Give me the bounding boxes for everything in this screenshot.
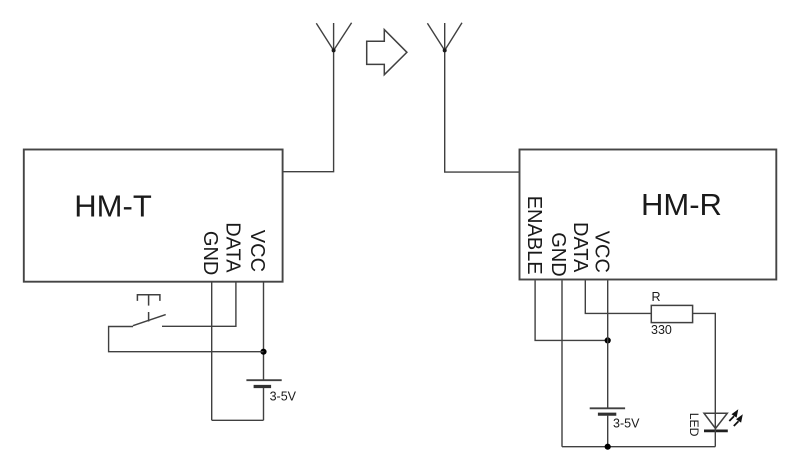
- arrow signal direction: [367, 30, 407, 75]
- battery BT1: [246, 380, 281, 386]
- module U1 HM-T: [24, 150, 283, 282]
- wire resistor R1 to LED: [693, 313, 716, 413]
- svg-text:GND: GND: [547, 232, 569, 276]
- wire bottom rail right circuit: [562, 446, 715, 448]
- node battery-rail junction: [605, 444, 611, 450]
- svg-text:LED: LED: [687, 413, 701, 437]
- battery BT2: [590, 408, 625, 414]
- svg-text:DATA: DATA: [221, 222, 243, 273]
- switch S1 pushbutton: [133, 295, 166, 326]
- svg-text:DATA: DATA: [569, 222, 591, 273]
- wire GND U2 to bottom rail: [561, 281, 563, 447]
- svg-text:3-5V: 3-5V: [613, 417, 640, 431]
- wire bottom rail left circuit: [212, 419, 264, 421]
- wire VCC U1 to battery: [263, 282, 265, 381]
- wire GND U1 to bottom rail: [211, 282, 213, 421]
- wire switch left contact: [109, 327, 264, 352]
- wire ENABLE U2 to VCC node: [535, 281, 608, 341]
- wire battery BT1 to bottom rail: [263, 388, 265, 420]
- svg-text:3-5V: 3-5V: [270, 390, 297, 404]
- module U2 HM-R: [520, 150, 777, 280]
- antenna ANT2: [427, 23, 519, 172]
- antenna ANT1: [283, 23, 352, 172]
- svg-text:R: R: [652, 290, 661, 304]
- svg-text:HM-T: HM-T: [74, 189, 152, 224]
- node ENABLE-VCC junction: [605, 337, 611, 343]
- LED light arrow 2: [734, 414, 743, 426]
- wire VCC U2 to battery BT2: [607, 281, 609, 409]
- wire DATA U1 to switch: [162, 282, 236, 327]
- LED light arrow 1: [729, 409, 738, 421]
- svg-text:ENABLE: ENABLE: [523, 196, 545, 275]
- resistor R1: [651, 305, 692, 322]
- svg-text:VCC: VCC: [590, 231, 612, 273]
- node VCC-switch junction: [260, 349, 266, 355]
- wire battery BT2 to bottom rail: [607, 416, 609, 447]
- svg-text:VCC: VCC: [246, 230, 268, 272]
- svg-text:330: 330: [651, 323, 672, 337]
- svg-text:HM-R: HM-R: [641, 187, 722, 222]
- svg-text:GND: GND: [199, 231, 221, 275]
- wire DATA U2 to resistor: [585, 281, 651, 314]
- LED D1: [704, 413, 728, 447]
